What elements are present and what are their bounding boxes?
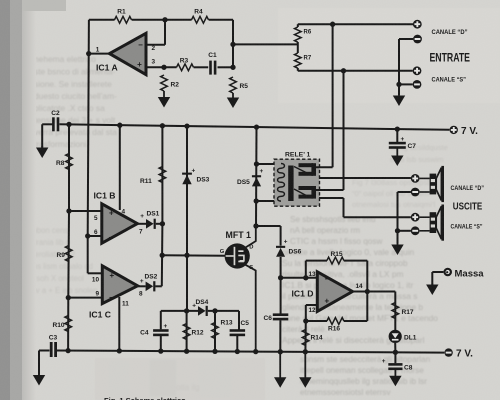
- resistor R17: [394, 292, 396, 331]
- wire: [398, 230, 411, 232]
- capacitor C2: [52, 117, 55, 131]
- terminal 7V bottom: [444, 348, 452, 356]
- terminal -D in: [413, 35, 422, 44]
- resistor R8: [66, 154, 73, 170]
- node pin13-ds6: [278, 275, 283, 280]
- wire r15: [305, 261, 307, 278]
- node dl1-b: [393, 350, 398, 355]
- wire DS3col: [186, 126, 188, 311]
- wire speakerS-feed: [319, 197, 344, 199]
- resistor R9: [65, 246, 72, 262]
- wire pin10: [88, 272, 103, 274]
- wire: [39, 350, 50, 352]
- wire gate: [162, 254, 225, 257]
- wire: [257, 163, 275, 165]
- node pin9: [66, 295, 71, 300]
- terminal +D out: [411, 174, 420, 183]
- terminal +S out: [411, 213, 420, 222]
- resistor R2: [161, 75, 168, 91]
- node c4-b: [158, 348, 163, 353]
- wire input-D-drop: [332, 24, 334, 167]
- ground: [38, 374, 40, 376]
- terminal -S out: [411, 226, 420, 235]
- wire: [233, 43, 298, 45]
- node pin13-r15: [303, 275, 308, 280]
- node -S join: [396, 82, 401, 87]
- wire: [67, 298, 69, 351]
- resistor R6: [295, 27, 302, 42]
- diode DS4: [198, 306, 206, 316]
- wire: [297, 68, 299, 71]
- resistor R10: [65, 316, 72, 332]
- wire: [87, 236, 89, 273]
- node DS1-k: [160, 221, 165, 226]
- resistor R7: [295, 53, 302, 68]
- node input-S: [341, 68, 346, 73]
- node DS3-top: [184, 123, 189, 128]
- wire: [42, 123, 53, 125]
- wire: [398, 191, 411, 193]
- resistor R14: [304, 321, 306, 352]
- wire: [218, 66, 234, 68]
- wire out14: [353, 291, 396, 293]
- node gate-ds3: [184, 253, 189, 258]
- op-amp IC1 D: [317, 272, 352, 312]
- resistor R13: [214, 311, 216, 352]
- resistor R1: [115, 16, 132, 23]
- ground: [304, 352, 306, 378]
- node r13-b: [212, 349, 217, 354]
- transistor MFT1: [225, 243, 250, 268]
- resistor R5: [230, 77, 237, 93]
- wire: [138, 285, 146, 287]
- wire canale-s-in: [298, 70, 413, 72]
- wire contact2-arm: [316, 189, 344, 191]
- node relay-top: [254, 124, 259, 129]
- resistor R16: [327, 318, 344, 325]
- wire: [297, 42, 299, 53]
- node coil-bot: [254, 198, 259, 203]
- op-amp IC1 C: [102, 266, 137, 304]
- node gate-tap: [160, 253, 165, 258]
- diode DS6: [276, 246, 285, 248]
- wire pin12: [306, 304, 318, 306]
- led DL1: [389, 330, 402, 343]
- wire: [88, 20, 89, 236]
- node R11-top: [160, 123, 165, 128]
- wire input-S-drop: [343, 71, 345, 190]
- terminal +D in: [413, 20, 422, 29]
- wire: [68, 124, 70, 211]
- wire: [280, 257, 282, 278]
- wire: [156, 223, 163, 225]
- resistor R12: [186, 311, 188, 351]
- wire: [146, 44, 165, 46]
- terminal Massa: [443, 268, 452, 277]
- wire pin9: [68, 297, 102, 299]
- node mft-s-b: [253, 349, 258, 354]
- wire pin6: [88, 235, 102, 237]
- node pin11-b: [117, 348, 122, 353]
- wire: [280, 278, 282, 314]
- node pin12-r16: [303, 318, 308, 323]
- node r10-b: [65, 348, 70, 353]
- ground: [163, 91, 165, 98]
- ground: [41, 146, 43, 149]
- wire drain-ds6: [256, 225, 281, 227]
- capacitor C6: [273, 313, 289, 316]
- node R4-tap: [230, 42, 235, 47]
- wire R11: [161, 126, 163, 224]
- node ds4-l: [184, 308, 189, 313]
- wire: [255, 127, 258, 226]
- node r14-b: [303, 349, 308, 354]
- wire canale-d-in: [298, 23, 413, 25]
- resistor R3: [177, 64, 194, 71]
- wire: [232, 20, 234, 68]
- terminal 7V top: [450, 126, 458, 134]
- ground: [279, 352, 281, 379]
- wire: [89, 19, 115, 21]
- ground: [397, 242, 399, 246]
- wire 7V rail: [59, 124, 449, 130]
- diode DS3: [182, 173, 192, 175]
- wire: [146, 66, 177, 68]
- node pin6: [85, 233, 90, 238]
- diode DS2: [146, 282, 154, 292]
- wire r16: [306, 320, 327, 322]
- wire: [67, 211, 70, 298]
- node coil-top: [254, 161, 259, 166]
- node r12-b: [184, 349, 189, 354]
- ground: [396, 148, 398, 157]
- ground: [394, 370, 396, 377]
- ground: [398, 93, 400, 97]
- wire: [89, 53, 111, 55]
- speaker D: [420, 177, 430, 179]
- terminal -S in: [413, 80, 422, 89]
- node C7-top: [395, 126, 400, 131]
- node pin5: [66, 208, 71, 213]
- op-amp IC1 A: [110, 33, 147, 74]
- diode DS1: [146, 219, 154, 229]
- capacitor C8: [394, 352, 396, 363]
- wire: [161, 224, 164, 286]
- resistor R11: [159, 167, 166, 183]
- node input-D: [330, 22, 335, 27]
- node -S-out: [395, 228, 400, 233]
- resistor R4: [192, 16, 209, 23]
- node c6-b: [278, 349, 283, 354]
- ground: [232, 93, 234, 99]
- wire ds4row: [161, 310, 198, 312]
- node ds4-r: [212, 308, 217, 313]
- terminal -D out: [411, 188, 420, 197]
- wire: [394, 343, 396, 352]
- wire: [399, 83, 413, 85]
- node drain: [253, 223, 258, 228]
- wire pin5: [69, 210, 102, 212]
- wire: [432, 271, 443, 273]
- node out-A: [86, 51, 91, 56]
- ground: [431, 284, 433, 286]
- speaker S: [420, 216, 430, 218]
- node out14: [365, 289, 370, 294]
- node R8-top: [66, 122, 71, 127]
- wire: [137, 223, 146, 225]
- wire speakerD-feed: [319, 177, 411, 179]
- relay RELE' 1: [274, 159, 320, 206]
- resistor R15: [327, 257, 344, 264]
- diode DS5: [252, 175, 261, 177]
- wire pin4: [119, 125, 121, 210]
- wire pin11: [118, 297, 120, 351]
- capacitor C3: [50, 342, 53, 357]
- wire: [194, 66, 209, 68]
- wire: [297, 24, 299, 27]
- op-amp IC1 B: [102, 204, 138, 243]
- left page margin strip: [0, 0, 10, 400]
- capacitor C1: [209, 61, 212, 75]
- capacitor C7: [396, 129, 398, 142]
- wire: [155, 285, 161, 287]
- wire 0V rail: [57, 351, 445, 353]
- node pin2-top: [162, 17, 167, 22]
- capacitor C4: [160, 311, 162, 329]
- wire contact1-arm: [316, 166, 333, 168]
- wire: [399, 38, 413, 40]
- node C1-R5: [230, 65, 235, 70]
- capacitor C5: [238, 311, 240, 330]
- node pin4-top: [117, 123, 122, 128]
- terminal +S in: [413, 66, 422, 75]
- node c5-b: [235, 349, 240, 354]
- wire pin13: [281, 277, 318, 279]
- node R2-top: [161, 65, 166, 70]
